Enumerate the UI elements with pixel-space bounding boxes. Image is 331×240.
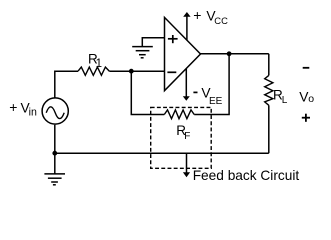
feedback dashed box — [151, 107, 212, 168]
wire: RF right to output rail — [194, 54, 229, 115]
resistor R1 — [78, 67, 109, 75]
ground (op-amp + input) — [132, 47, 153, 58]
svg-text:F: F — [184, 131, 190, 142]
label plus (output polarity) — [302, 114, 310, 122]
source V1 (sine) — [42, 98, 68, 124]
node: junction at inverting input — [129, 69, 134, 74]
svg-text:1: 1 — [96, 58, 102, 70]
svg-text:o: o — [308, 93, 314, 105]
svg-text:EE: EE — [209, 96, 223, 107]
-Vee supply arrow — [185, 69, 187, 97]
wire: source to R1 (left rail top corner) — [55, 71, 78, 97]
op-amp U1 — [165, 17, 201, 90]
wire: R1 to inverting input — [109, 70, 164, 72]
svg-text:+: + — [9, 99, 17, 115]
svg-text:in: in — [29, 107, 37, 119]
op-amp plus input symbol — [168, 35, 178, 43]
wire: junction down to feedback — [131, 71, 164, 114]
resistor RF — [164, 110, 194, 119]
label minus (output polarity) — [303, 67, 310, 69]
+Vcc supply arrow — [186, 16, 188, 40]
wire: output corner down to RL — [268, 54, 270, 76]
node: ground junction — [52, 151, 57, 156]
wire: source bottom to ground junction — [54, 125, 56, 153]
svg-text:Feed back Circuit: Feed back Circuit — [193, 168, 300, 183]
label -Vee — [193, 91, 197, 93]
resistor RL — [265, 75, 273, 105]
op-amp minus input symbol — [167, 71, 176, 73]
ground (bottom) — [54, 153, 56, 174]
svg-text:+: + — [193, 7, 201, 23]
svg-text:CC: CC — [214, 15, 228, 26]
feedback arrow — [186, 153, 188, 173]
svg-text:L: L — [282, 95, 288, 106]
node: output junction — [227, 51, 232, 56]
wire: bottom rail — [55, 152, 269, 154]
wire: non-inverting input to ground — [142, 38, 164, 47]
wire: RL to bottom rail — [268, 105, 270, 153]
wire: op-amp output — [201, 53, 269, 55]
